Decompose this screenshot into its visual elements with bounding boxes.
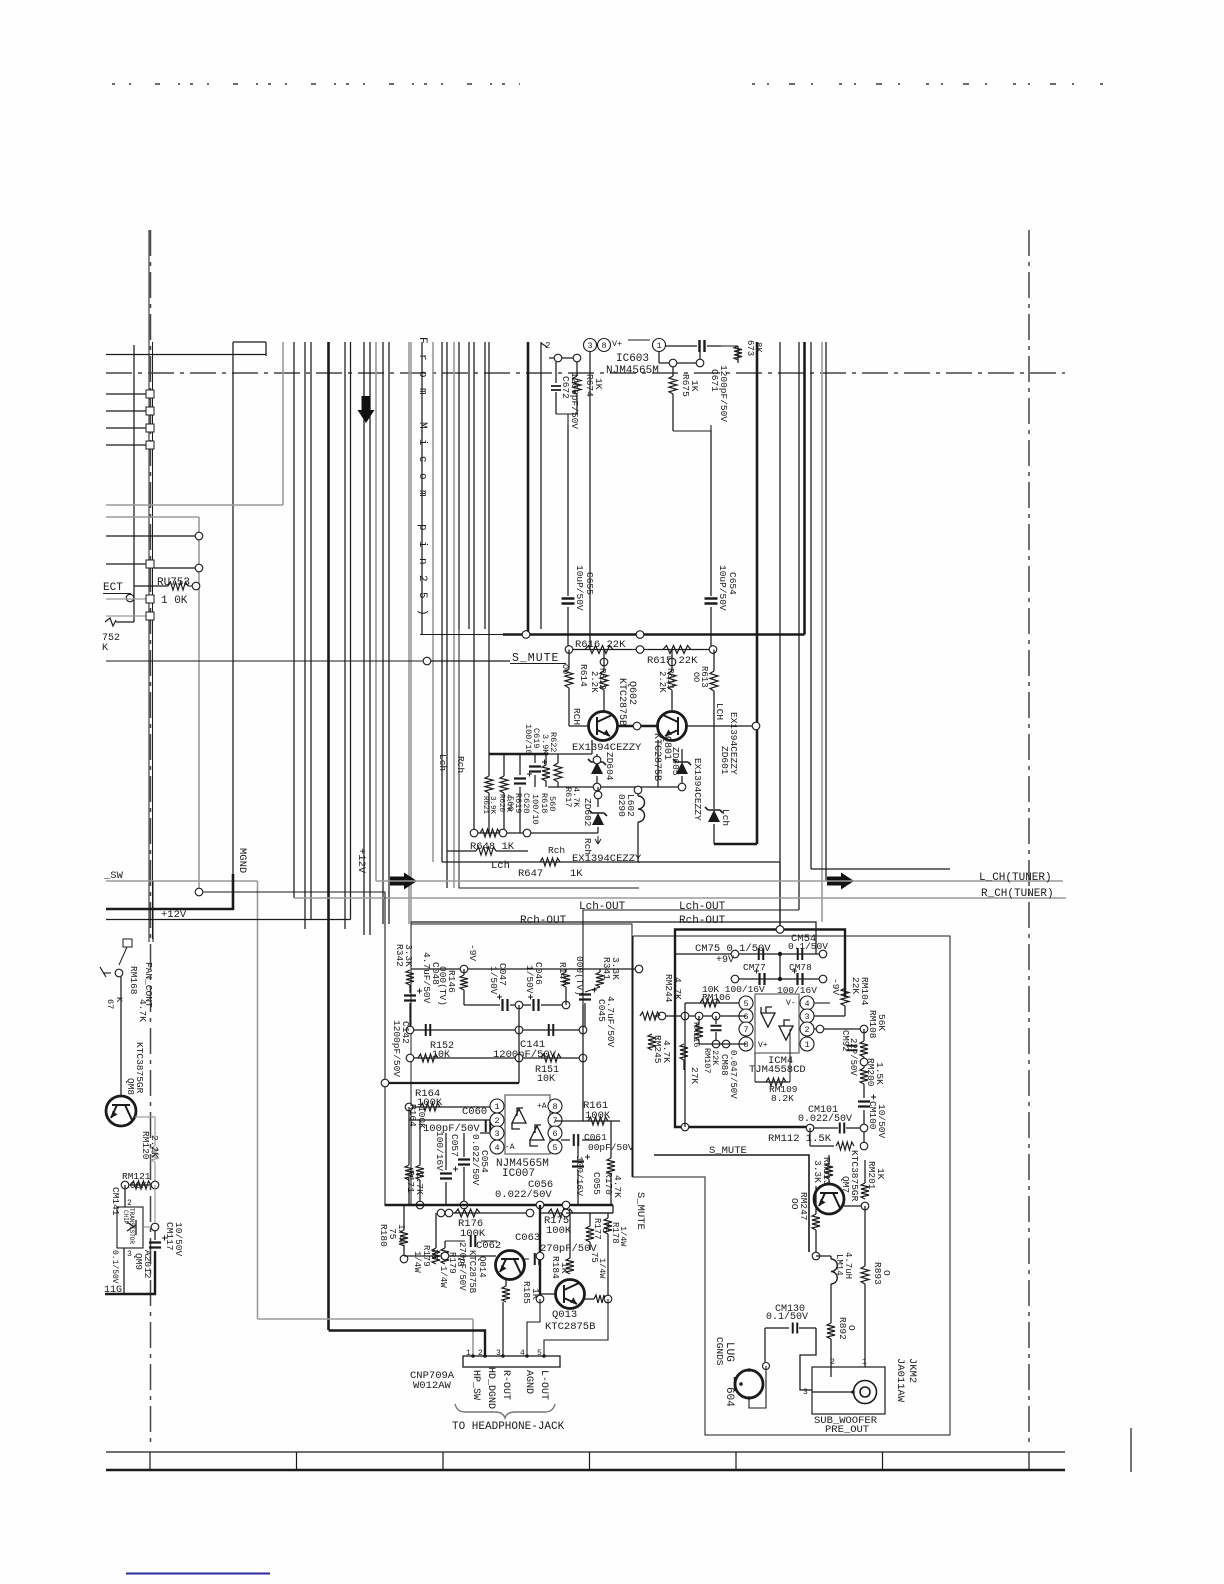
wire box5 to bus [154,567,195,569]
svg-text:3.3K: 3.3K [403,944,414,967]
top edge dotted remnant line right [752,83,1105,85]
svg-text:22K: 22K [710,1050,720,1066]
resistor RM200 [860,1068,868,1084]
zener ZD602 [597,787,599,807]
svg-text:1/4W: 1/4W [412,1251,422,1273]
wire Q801 emitter [657,740,659,787]
wire Q013 emitter [585,1298,594,1300]
svg-text:3.3K: 3.3K [610,957,621,980]
inductor L602 [637,787,639,796]
svg-text:S_MUTE: S_MUTE [634,1192,646,1230]
wire bus E1 [540,342,542,629]
svg-text:7: 7 [743,1025,748,1035]
wire bus B1 [293,342,295,898]
transistor Q013 [556,1280,585,1309]
svg-text:Lch: Lch [720,809,731,826]
svg-text:R620: R620 [497,794,505,813]
resistor R184 [569,1213,571,1258]
svg-text:Q014: Q014 [477,1256,487,1278]
svg-text:R612: R612 [597,668,607,690]
capacitor CM117 [154,1231,156,1240]
bottom frame ticks [149,1452,151,1470]
capacitor C619 [534,754,536,763]
wire bus F3 (Lch-OUT riser) [798,342,800,910]
svg-text:R614: R614 [578,664,589,687]
wire bus C9 [453,342,455,888]
resistor R341 [599,969,601,972]
svg-text:R647: R647 [518,868,543,880]
wire bus E2 [589,342,591,650]
capacitor C057 [445,1133,447,1170]
svg-text:1200pF/50V: 1200pF/50V [569,372,580,429]
svg-text:5: 5 [552,1143,557,1153]
wire bus C5 [421,342,423,635]
transistor Q014 [496,1251,525,1280]
svg-text:Lch: Lch [437,754,448,771]
wire bus C8 [446,342,448,888]
wire Lch-OUT [583,910,799,1030]
svg-text:4.7K: 4.7K [661,1040,672,1063]
svg-text:PRE_OUT: PRE_OUT [825,1424,869,1436]
resistor R892 [830,1322,832,1324]
svg-text:ZD602: ZD602 [582,798,593,827]
wire bus A2 [232,342,234,874]
resistor R176 [455,1209,480,1217]
svg-text:4.7K: 4.7K [571,787,581,808]
svg-text:5: 5 [537,1349,542,1358]
capacitor C045 [579,995,591,1000]
wire row C046 [464,1004,500,1006]
svg-text:67: 67 [105,999,115,1009]
svg-text:2: 2 [494,1116,499,1126]
vertical links rows [518,1005,520,1058]
svg-text:6: 6 [743,1012,748,1022]
svg-text:1: 1 [656,341,661,351]
thick riser x540 [539,1205,541,1299]
svg-text:3: 3 [127,1250,132,1259]
node S_MUTE label [106,660,423,662]
connector pin FAN_CONT [123,939,132,947]
svg-text:4.7uH: 4.7uH [843,1252,853,1279]
wire chip transistor [124,1185,126,1207]
left border companion line [148,230,150,942]
transistor QM8 [106,1096,136,1126]
svg-text:Lch-OUT: Lch-OUT [579,901,626,913]
resistor R175 [540,1212,613,1214]
svg-text:R_CH(TUNER): R_CH(TUNER) [981,888,1054,900]
svg-text:5: 5 [743,999,748,1009]
svg-text:+A: +A [537,1102,547,1111]
svg-text:OO: OO [560,664,570,674]
svg-text:-9V: -9V [830,978,841,995]
left border companion line 2 [152,342,154,939]
svg-text:HD_DGND: HD_DGND [485,1367,496,1409]
svg-text:Rch: Rch [548,845,565,856]
wire bus F2 [779,342,781,927]
svg-text:ZD604: ZD604 [604,752,615,781]
resistor R612 [600,658,608,666]
svg-text:EX1394CEZZY: EX1394CEZZY [572,853,642,865]
svg-text:604: 604 [723,1387,735,1407]
svg-text:8.2K: 8.2K [771,1093,794,1104]
op-amp IC007 triangles [512,1108,526,1129]
wire row R152 [410,1057,585,1059]
wire HD_DGND to pin2 [329,1331,486,1357]
resistor R180 [403,1205,405,1230]
wire bus A4 [282,342,284,505]
wire to RU753 top [106,535,195,537]
capacitor C047 [503,999,508,1011]
resistor R185 [505,1279,507,1286]
wire bus D1 [458,342,460,629]
wire R648 row [474,832,598,834]
wire bus C7 (Lch) [441,342,443,862]
flow arrow right L_CH 1 [390,873,417,890]
svg-text:RM168: RM168 [128,966,139,995]
resistor RM244 [640,1012,660,1020]
svg-text:C655: C655 [584,572,595,595]
svg-text:10K: 10K [537,1074,555,1085]
wire bus B2 [304,342,306,929]
svg-text:JKM2: JKM2 [906,1358,918,1383]
capacitor C061 [574,1134,579,1146]
resistor R648 [480,829,500,837]
resistor R613 [713,650,715,672]
svg-text:000(TV): 000(TV) [574,956,585,996]
connector stub 4 [106,444,146,446]
connector CNP709A body [463,1356,560,1367]
svg-text:8: 8 [743,1040,748,1050]
svg-text:R611: R611 [665,668,675,690]
svg-text:2.7K: 2.7K [414,1172,425,1195]
svg-text:L_CH(TUNER): L_CH(TUNER) [979,872,1052,884]
capacitor C655 [567,425,569,596]
jack JKM2 body [812,1367,885,1414]
svg-text:ECT: ECT [103,582,123,594]
svg-text:100/16V: 100/16V [574,1156,585,1196]
svg-text:O: O [881,1270,892,1276]
svg-text:4: 4 [494,1143,499,1153]
resistor R648b [447,850,476,852]
svg-text:V-: V- [786,999,796,1008]
svg-text:0.1/50V: 0.1/50V [110,1250,119,1284]
connector stub 7 [106,615,146,617]
svg-text:1/4W: 1/4W [438,1266,448,1288]
wire bus C6 [432,342,434,862]
svg-text:3.9K: 3.9K [540,734,550,755]
wire QM8 emitter to RM120 [135,1117,155,1146]
wire bus B3 [310,342,312,919]
svg-text:8: 8 [552,1102,557,1112]
resistor R752 partial [105,618,116,626]
wire bus D5 [488,342,490,754]
svg-text:KTC2875B: KTC2875B [651,733,662,781]
svg-text:R621: R621 [481,796,489,815]
wire right block feed [811,868,950,870]
wire bus B5 [344,342,346,929]
svg-text:2.2K: 2.2K [149,1135,160,1158]
wire pin4 [527,1299,540,1356]
wire bus D3 [473,342,475,833]
resistor R152 [418,1054,438,1062]
svg-text:4.7K: 4.7K [612,1175,623,1198]
wire to middle block left [203,892,385,1206]
svg-text:RM112 1.5K: RM112 1.5K [768,1133,832,1145]
wire HP_SW to pin1 [258,1318,474,1320]
svg-text:Q013: Q013 [552,1309,577,1321]
resistor R342 [406,970,414,985]
svg-text:8K: 8K [753,342,763,353]
svg-text:2: 2 [804,1025,809,1035]
wire pin2 row [409,1119,497,1121]
svg-text:1/4W: 1/4W [618,1226,628,1247]
svg-text:0.047/50V: 0.047/50V [728,1050,738,1099]
svg-text:3: 3 [496,1349,501,1358]
wire bus C4 (Rch-OUT riser) [410,342,412,922]
wire RM244 row [654,1015,746,1017]
wire mid thick bar [385,1082,519,1084]
resistor R615 [663,646,691,654]
wire R164 riser [408,1107,410,1165]
resistor RM116 [698,1016,700,1024]
connector stub 5 [106,563,146,565]
flow arrow down left [358,396,375,423]
wire L_CH line [376,880,1063,882]
svg-text:C063: C063 [515,1232,540,1244]
left top wire [106,354,266,356]
op-amp IC007 pins left [490,1099,504,1113]
svg-text:Rch: Rch [455,756,466,773]
svg-text:4: 4 [804,999,809,1009]
transistor Q801 [658,712,687,741]
wire +12V [106,919,351,921]
svg-text:3: 3 [804,1012,809,1022]
wire lower junction row [548,786,682,788]
wire Q013 base [540,1293,556,1295]
op-amp ICM4 triangles [761,1007,775,1027]
svg-text:4.7K: 4.7K [672,977,683,1000]
wire Q602 emitter [591,740,593,754]
wire QM9 pin3 [123,1248,125,1294]
svg-text:Lch-OUT: Lch-OUT [679,901,726,913]
svg-text:100/10: 100/10 [530,794,540,825]
resistor R170 [610,1121,612,1158]
capacitor C142 [426,1024,431,1036]
resistor RM108 [863,1029,865,1041]
bottom right short vertical [1130,1428,1132,1472]
horizontal dash-dot divider [106,372,1065,374]
svg-text:+9V: +9V [716,955,734,966]
op-amp IC007 pins right [548,1099,562,1113]
brace to headphone jack [455,1404,555,1418]
svg-text:1200pF/50V: 1200pF/50V [391,1020,402,1077]
capacitor C654 [710,431,712,596]
wire R_CH line [294,897,1066,899]
wire QM7 emitter [844,1205,861,1207]
svg-text:3: 3 [803,1388,808,1397]
svg-text:10/50V: 10/50V [173,1222,184,1257]
resistor R893 [864,1206,866,1266]
op-amp ICM4 pins right [800,996,814,1010]
top edge dotted remnant line left [112,83,520,85]
resistor R179a [420,1205,422,1248]
wire row C142 [410,1029,585,1031]
svg-text:QM7: QM7 [840,1176,851,1193]
svg-text:3: 3 [494,1129,499,1139]
svg-text:ZD601: ZD601 [719,746,730,775]
svg-text:10/50V: 10/50V [876,1104,887,1139]
svg-text:ZD605: ZD605 [670,747,681,776]
right block thick frame [675,930,845,1128]
middle block outline [411,922,632,1177]
resistor R673 [737,346,739,363]
connector stub 2 [106,410,146,412]
svg-text:000(TV): 000(TV) [437,966,448,1006]
svg-text:TJM4558CD: TJM4558CD [749,1064,806,1076]
wire bus D4 [484,342,486,629]
resistor R621 [488,754,490,776]
resistor RM201 [864,1160,866,1183]
svg-text:C054: C054 [479,1150,490,1173]
svg-text:MGND: MGND [236,848,248,873]
resistor R622 [542,765,550,781]
wire RU753 bus junction [195,888,203,896]
wire thick bus corner [714,843,757,846]
resistor RM109 [755,1081,790,1083]
gray feeder lower [106,516,199,518]
svg-text:O: O [846,1325,857,1331]
svg-text:1K: 1K [593,378,604,390]
capacitor CM88 [715,1016,717,1024]
svg-text:EX1394CEZZY: EX1394CEZZY [692,758,703,821]
wire Rch to subwoofer riser [638,861,780,863]
jack JKM2 rings [854,1381,877,1404]
inductor LM14 [816,1255,831,1257]
resistor RM113 [825,1163,833,1179]
wire SW riser gray [257,881,259,1319]
zener ZD604 [596,754,598,758]
svg-text:100K: 100K [460,1228,486,1240]
connector stub 6 [106,598,146,600]
wire bus F7 [825,342,827,881]
svg-text:C062: C062 [476,1240,501,1252]
svg-text:HP_SW: HP_SW [470,1370,481,1400]
right border dash-dot vertical [1028,230,1030,1446]
svg-text:K: K [114,997,124,1003]
op-amp ICM4 pins left [739,996,753,1010]
wire bus B6 (+12V) [350,342,352,920]
svg-text:C654: C654 [727,572,738,595]
wire pin2 row right [814,1028,864,1030]
connector stub 3 [106,427,146,429]
resistor R675 [672,367,674,376]
resistor R146 [463,969,465,975]
svg-text:560: 560 [505,796,515,811]
svg-text:From Micom pin25): From Micom pin25) [416,337,428,626]
connector stub 1 [106,393,146,395]
resistor RM107 [680,1044,688,1060]
wire QM7 base riser [815,1186,817,1214]
resistor R647 [540,858,560,866]
svg-text:8: 8 [601,341,606,351]
svg-text:0290: 0290 [616,794,627,817]
resistor RM104 [844,988,846,997]
svg-text:1K: 1K [689,380,700,392]
thick mute bus [420,634,503,636]
bottom frame lower line [106,1469,1065,1472]
svg-text:RCH: RCH [571,708,582,725]
resistor R147 [565,969,567,972]
svg-text:C060: C060 [462,1106,487,1118]
svg-text:A2012: A2012 [142,1250,153,1279]
wire bus A1 [133,345,135,622]
svg-text:10K: 10K [432,1050,450,1061]
page number blue line [126,1573,270,1575]
wire bus D6 (thick) [527,342,530,635]
chip transistor QM9 box [117,1207,143,1248]
svg-text:+12V: +12V [355,848,367,874]
wire bus B9 (L_CH) [375,342,377,881]
resistor R617 [554,763,562,782]
svg-text:LCH: LCH [714,703,725,720]
svg-text:3.3K: 3.3K [812,1160,823,1183]
svg-text:W012AW: W012AW [413,1380,452,1392]
wire +-9V risers [779,954,781,979]
svg-text:OO: OO [691,672,701,682]
svg-text:AGND: AGND [523,1370,534,1394]
svg-text:C055: C055 [591,1172,602,1195]
svg-text:1: 1 [466,1349,471,1358]
svg-text:4.7uF/50V: 4.7uF/50V [605,996,616,1048]
wire bus C1 [382,342,384,924]
svg-text:R-OUT: R-OUT [500,1370,511,1400]
resistor RM106 [685,1002,739,1004]
resistor R611 [668,658,676,666]
svg-text:V+: V+ [612,339,622,349]
resistor RM245 [651,1016,653,1034]
capacitor C672 [555,362,557,383]
svg-text:RM104: RM104 [859,977,870,1006]
svg-text:JA011AW: JA011AW [894,1358,906,1403]
wire bus D2 [468,342,470,629]
wire QM8 collector [120,977,122,1097]
svg-text:-A: -A [505,1143,515,1152]
svg-text:1K: 1K [875,1168,886,1180]
svg-text:1K: 1K [570,868,583,880]
svg-text:560: 560 [547,796,557,811]
resistor R674 [576,362,578,376]
wire lower row extension [566,1212,613,1214]
svg-text:0.1/50V: 0.1/50V [766,1311,808,1323]
wire Q801 base to bus [686,725,753,727]
svg-text:1: 1 [862,1358,867,1367]
wire Q602 base [569,725,589,727]
svg-text:1/50V: 1/50V [488,966,499,995]
lug terminal LUG 604 [735,1370,763,1398]
wire bus A3 [265,342,267,356]
wire block bottom thick [385,1204,613,1206]
wire bus F5 (Rch riser) [810,342,812,869]
wire bus F6 [821,342,823,922]
thick emitter bar [489,753,548,756]
wire Q014 base row [404,1255,496,1257]
wire bus C2 [388,342,390,924]
svg-text:4: 4 [520,1349,525,1358]
capacitor CM100 [863,1084,865,1098]
wire MGND thick [106,874,233,909]
resistor RM120 [151,1146,159,1162]
svg-text:Rch-OUT: Rch-OUT [520,915,567,927]
